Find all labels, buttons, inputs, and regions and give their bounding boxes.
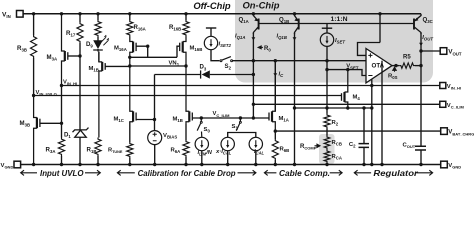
svg-text:M16A: M16A bbox=[114, 46, 127, 53]
node gnd x275.3 bbox=[274, 163, 277, 166]
svg-text:D1: D1 bbox=[64, 132, 71, 140]
wire I_C line bbox=[274, 61, 276, 112]
svg-text:IOUT: IOUT bbox=[422, 35, 433, 42]
capacitor C_OUT bbox=[415, 146, 426, 150]
node rail x186 bbox=[184, 12, 187, 15]
wire V_OUT node to terminal bbox=[421, 50, 440, 52]
wire C_2 column bbox=[363, 108, 365, 144]
node D_3 / V_BIAS / M_1C gate bbox=[153, 118, 156, 121]
svg-text:R0: R0 bbox=[264, 46, 271, 53]
arrow I_C bbox=[273, 73, 277, 76]
wire C_OUT to gnd bbox=[420, 150, 422, 165]
svg-text:VN1: VN1 bbox=[169, 60, 180, 67]
wire V_C_ILIM right line bbox=[253, 103, 439, 105]
transistor M_1B (LED column) bbox=[99, 52, 102, 138]
arrow R_OS pointer bbox=[393, 67, 397, 72]
svg-text:M3A: M3A bbox=[47, 54, 58, 62]
current source I_CAL bbox=[249, 137, 262, 150]
transistor M_16A bbox=[130, 37, 133, 67]
svg-text:On-Chip: On-Chip bbox=[243, 0, 280, 11]
resistor R_2 bbox=[324, 114, 330, 129]
transistor M_1A bbox=[272, 61, 275, 132]
wire rail end to Q_3C emitter bbox=[415, 14, 421, 21]
wire R5 to V_OUT column bbox=[415, 65, 421, 67]
wire rail to R_16B bbox=[185, 14, 187, 20]
wire I_SET2 stem bbox=[210, 28, 212, 36]
svg-text:S1: S1 bbox=[232, 124, 239, 131]
svg-text:M1B: M1B bbox=[89, 66, 99, 73]
node gnd x129.8 bbox=[128, 163, 131, 166]
node gnd x227.7 bbox=[226, 163, 229, 166]
wire Q_3C collector down bbox=[420, 33, 422, 51]
op-amp OTA bbox=[366, 49, 392, 83]
terminal V_C_ILIM bbox=[440, 101, 446, 107]
svg-text:Cable Comp.: Cable Comp. bbox=[279, 169, 330, 178]
node gnd x421 bbox=[419, 163, 422, 166]
svg-text:R3B: R3B bbox=[17, 45, 27, 53]
node OTA output bbox=[394, 64, 397, 67]
node Q1A col / V_C_ILIM line bbox=[252, 103, 255, 106]
resistor R_3A bbox=[58, 138, 64, 157]
current source I_SET bbox=[320, 33, 333, 46]
wire R_3B to V_IN_UVLO node bbox=[33, 58, 35, 96]
svg-text:RCOMP: RCOMP bbox=[300, 143, 317, 151]
wire node line y108 bbox=[295, 107, 372, 109]
terminal V_OUT bbox=[440, 48, 447, 55]
svg-text:ISET: ISET bbox=[335, 38, 345, 45]
wire Q_1A collector down bbox=[252, 33, 254, 118]
node rail x33.6 bbox=[32, 12, 35, 15]
node line108 left end bbox=[293, 106, 296, 109]
node gnd x80 bbox=[78, 163, 81, 166]
svg-text:R6A: R6A bbox=[171, 148, 181, 155]
node OTA tail / V_IN_HI bbox=[370, 84, 373, 87]
section label Cable Comp bbox=[264, 170, 276, 175]
svg-text:VOUT: VOUT bbox=[448, 49, 462, 57]
svg-text:R5: R5 bbox=[403, 55, 411, 61]
label R_0 annotation bbox=[258, 46, 263, 49]
node gnd x327 bbox=[325, 163, 328, 166]
terminal V_BAT_CHRG bbox=[441, 128, 448, 135]
resistor R_17 bbox=[77, 22, 83, 43]
wire V_IN_HI column down bbox=[61, 86, 63, 138]
wire res to D_9 bbox=[97, 37, 99, 41]
wire D_9 to M_1B bbox=[98, 52, 100, 62]
svg-text:Input UVLO: Input UVLO bbox=[40, 169, 84, 178]
section label Input UVLO bbox=[21, 170, 37, 175]
resistor R_6B bbox=[272, 139, 278, 160]
svg-text:M4: M4 bbox=[353, 95, 361, 102]
node R5 / Vout col bbox=[419, 64, 422, 67]
node gnd x33.6 bbox=[32, 163, 35, 166]
node gnd x154.7 bbox=[153, 163, 156, 166]
transistor Q_1B bbox=[295, 14, 299, 34]
node rail x80 bbox=[78, 12, 81, 15]
resistor R_CB bbox=[324, 136, 330, 150]
current source I_SET2 bbox=[204, 36, 217, 49]
resistor R_16A bbox=[127, 20, 133, 37]
svg-text:VIN_HI: VIN_HI bbox=[447, 84, 461, 91]
section label Calibration for Cable Drop bbox=[117, 170, 134, 175]
node rail x129.8 bbox=[128, 12, 131, 15]
node rail Q1A emitter bbox=[252, 12, 255, 15]
svg-text:R6B: R6B bbox=[280, 147, 290, 154]
wire feedback from rail bbox=[379, 14, 381, 43]
svg-text:S0: S0 bbox=[204, 127, 211, 134]
node gnd x294.5 bbox=[293, 163, 296, 166]
transistor M_1B bbox=[186, 66, 189, 124]
source V_BIAS bbox=[148, 131, 162, 145]
node D_3 to Q1A collector bbox=[252, 73, 255, 76]
node gnd x61.5 bbox=[60, 163, 63, 166]
switch S_0 bbox=[200, 118, 202, 121]
wire mirror gate line bbox=[130, 56, 177, 58]
wire Q_1B collector down bbox=[294, 33, 296, 165]
svg-text:IQ1A: IQ1A bbox=[235, 34, 245, 41]
wire S_2 output line bbox=[233, 60, 382, 62]
transistor M_3B bbox=[34, 96, 37, 165]
svg-text:M1A: M1A bbox=[279, 116, 289, 123]
node gnd x371.8 bbox=[370, 163, 373, 166]
LED D_9 emission arrows bbox=[101, 37, 109, 45]
svg-text:ISET2: ISET2 bbox=[219, 42, 232, 49]
resistor R_CA bbox=[324, 150, 330, 164]
wire M_1C to R_TUNE bbox=[129, 122, 131, 142]
arrow I_OUT bbox=[419, 43, 423, 46]
capacitor C_2 bbox=[359, 144, 370, 148]
wire I_CAL to gnd bbox=[255, 151, 257, 165]
wire M_1A to R_6B bbox=[274, 131, 276, 139]
svg-text:VBIAS: VBIAS bbox=[163, 133, 177, 140]
node M_3A gate on x80 bbox=[78, 54, 81, 57]
node V_IN_UVLO bbox=[32, 94, 35, 97]
node M_3B gate on x61.5 bbox=[60, 122, 63, 125]
node S2 wire / Q1A col bbox=[252, 59, 255, 62]
wire V_IN_UVLO line bbox=[34, 95, 342, 97]
svg-text:S2: S2 bbox=[225, 63, 232, 71]
resistor R_3B bbox=[31, 35, 37, 58]
node V_IN_HI bbox=[60, 84, 63, 87]
wire VN_1 segment bbox=[130, 65, 186, 67]
svg-text:R16B: R16B bbox=[169, 24, 181, 32]
svg-text:Off-Chip: Off-Chip bbox=[193, 0, 231, 11]
wire M_3A gate lead bbox=[68, 55, 80, 57]
transistor M_4 bbox=[345, 70, 348, 108]
arrow R_COMP pointer bbox=[315, 144, 321, 147]
node gnd x364 bbox=[362, 163, 365, 166]
node S_1 tap bbox=[239, 116, 242, 119]
resistor above D_9 bbox=[95, 20, 101, 37]
wire M_16B gate riser bbox=[177, 46, 180, 57]
node gnd x98 bbox=[96, 163, 99, 166]
transistor M_3A bbox=[62, 14, 65, 86]
wire V_OUT column down bbox=[420, 51, 422, 146]
node line108 / M_4 bbox=[346, 106, 349, 109]
node rail x380 bbox=[378, 12, 381, 15]
wire V_BIAS to gnd bbox=[154, 145, 156, 165]
wire S_1 branch tee bbox=[228, 133, 256, 138]
wire R_3A to gnd bbox=[61, 156, 63, 165]
node I_SET / S_2 wire bbox=[325, 59, 328, 62]
wire D_3 left segment bbox=[155, 74, 201, 76]
svg-text:M1C: M1C bbox=[114, 117, 124, 124]
svg-text:x·ICAL: x·ICAL bbox=[215, 149, 232, 156]
svg-text:RCA: RCA bbox=[332, 154, 342, 161]
svg-text:D3: D3 bbox=[200, 64, 207, 72]
terminal V_GND left bbox=[14, 161, 21, 168]
wire I_SET stem2 bbox=[326, 28, 328, 33]
node VN_1 bbox=[184, 64, 187, 67]
svg-text:Regulator: Regulator bbox=[373, 169, 418, 178]
node R_2 top / node line bbox=[325, 106, 328, 109]
node rail Q1B emitter bbox=[293, 12, 296, 15]
wire V_C_ILIM gate line bbox=[193, 117, 270, 119]
svg-text:R17: R17 bbox=[66, 30, 76, 38]
arrow I_Q1A bbox=[252, 37, 256, 40]
wire D_3 branch vertical bbox=[154, 75, 156, 131]
R_COMP shaded box bbox=[319, 134, 335, 164]
current source I_SET2 top bar bbox=[206, 27, 216, 29]
wire xI_CAL to gnd bbox=[227, 151, 229, 165]
svg-text:M3B: M3B bbox=[20, 120, 31, 128]
current source x*I_CAL bbox=[221, 137, 234, 150]
switch S_2 bbox=[220, 60, 222, 62]
resistor R_TUNE bbox=[127, 142, 133, 158]
svg-text:ILIM/N: ILIM/N bbox=[198, 150, 213, 157]
transistor Q_3C bbox=[415, 27, 421, 34]
wire R_1B to gnd bbox=[97, 156, 99, 165]
node S2 wire / I_C col bbox=[274, 59, 277, 62]
svg-text:IQ1B: IQ1B bbox=[277, 34, 287, 41]
transistor Q_1A bbox=[253, 14, 258, 34]
wire I_SET stem from bus bbox=[326, 24, 328, 29]
diode D_9 LED bbox=[93, 40, 103, 49]
node Q1A col end bbox=[252, 116, 255, 119]
wire I_SET column down bbox=[326, 46, 328, 113]
resistor R5 bbox=[399, 63, 415, 68]
current source I_SET top bar bbox=[322, 27, 332, 29]
wire R_6A to gnd bbox=[185, 157, 187, 165]
resistor R_6A bbox=[183, 140, 189, 157]
node line108 / OTA tail bbox=[370, 106, 373, 109]
node rail x98 bbox=[96, 12, 99, 15]
transistor M_16B bbox=[183, 37, 186, 67]
node gnd x382 bbox=[380, 163, 383, 166]
wire PNP base bus bbox=[259, 23, 414, 25]
node I_SET / V_SET line bbox=[325, 68, 328, 71]
svg-text:VGND: VGND bbox=[1, 163, 14, 170]
diode D_3 bbox=[202, 70, 210, 78]
diode D_1 zener bbox=[73, 128, 89, 133]
svg-text:D9: D9 bbox=[86, 41, 93, 49]
wire R_2 to R_CB bbox=[326, 129, 328, 136]
svg-text:M16B: M16B bbox=[190, 46, 203, 53]
wire M_3B gate lead bbox=[40, 122, 62, 124]
wire I_LIM/N to gnd bbox=[201, 151, 203, 165]
arrow I_Q1B bbox=[293, 37, 297, 40]
wire R_6B to gnd bbox=[274, 160, 276, 165]
svg-text:VGND: VGND bbox=[448, 163, 461, 170]
node M_16A gate tie bbox=[146, 45, 149, 48]
wire top supply rail bbox=[23, 13, 421, 15]
transistor M_1C bbox=[130, 66, 133, 122]
svg-text:VC_ILIM: VC_ILIM bbox=[447, 103, 465, 110]
svg-text:M1B: M1B bbox=[173, 117, 183, 124]
node gnd x186 bbox=[184, 163, 187, 166]
node VN_1 / mirror column bbox=[128, 64, 131, 67]
terminal V_IN_HI bbox=[440, 83, 446, 89]
svg-text:RTUNE: RTUNE bbox=[108, 148, 123, 155]
wire M_1C gate segment bbox=[136, 119, 154, 121]
node M_16A source tie bbox=[128, 56, 131, 59]
svg-text:C2: C2 bbox=[349, 142, 356, 149]
node V_OUT bbox=[419, 49, 422, 52]
svg-text:1:1:N: 1:1:N bbox=[331, 16, 348, 23]
wire rail to R_16A bbox=[129, 14, 131, 20]
wire gate tie vertical bbox=[147, 46, 149, 57]
svg-text:VIN: VIN bbox=[2, 11, 11, 19]
wire rail to R_17 bbox=[79, 14, 81, 22]
svg-text:RCB: RCB bbox=[332, 140, 342, 147]
wire V_BAT_CHRG line bbox=[275, 130, 440, 132]
wire rail to R_3B bbox=[33, 14, 35, 35]
wire M_16A gate lead bbox=[136, 45, 148, 47]
resistor R_16B bbox=[183, 20, 189, 37]
node S_0 tap bbox=[200, 116, 203, 119]
wire M_1B gate lead to VN_1 bbox=[105, 65, 130, 67]
wire D_3 right segment bbox=[210, 74, 254, 76]
wire R_17 to D_1 bbox=[79, 43, 81, 130]
wire ground rail bbox=[21, 164, 441, 166]
svg-text:Calibration for Cable Drop: Calibration for Cable Drop bbox=[138, 169, 236, 178]
svg-text:R3A: R3A bbox=[46, 147, 56, 155]
node gnd x255.8 bbox=[254, 163, 257, 166]
svg-text:COUT: COUT bbox=[403, 143, 416, 150]
section label Regulator bbox=[354, 170, 371, 175]
terminal V_IN bbox=[17, 11, 24, 18]
wire D_1 to gnd bbox=[79, 137, 81, 164]
wire R_CA to gnd bbox=[326, 163, 328, 165]
wire S2 line drop bbox=[381, 61, 383, 165]
wire OTA + feedback bbox=[358, 43, 381, 56]
wire OTA tail bbox=[371, 79, 373, 165]
on-chip shaded region bbox=[235, 0, 433, 83]
wire M_1B to R_6A bbox=[185, 124, 187, 140]
wire I_SET2 to S_2 bbox=[211, 50, 219, 61]
current source I_LIM/N bbox=[195, 137, 208, 150]
wire R_TUNE to gnd bbox=[129, 158, 131, 165]
wire C_2 to gnd bbox=[363, 147, 365, 164]
svg-text:R2: R2 bbox=[332, 120, 339, 127]
svg-text:VC_ILIM: VC_ILIM bbox=[213, 111, 231, 118]
node line108 / C_2 bbox=[362, 106, 365, 109]
resistor R_1B bbox=[95, 138, 101, 157]
wire V_SET line bbox=[327, 70, 366, 76]
node rail x61.5 bbox=[60, 12, 63, 15]
switch S_1 bbox=[239, 118, 241, 121]
svg-text:VBAT_CHRG: VBAT_CHRG bbox=[448, 129, 474, 137]
node gnd x201.8 bbox=[200, 163, 203, 166]
wire OTA output bbox=[392, 65, 399, 67]
node V_BAT_CHRG start bbox=[274, 129, 277, 132]
wire rail to res98 bbox=[97, 14, 99, 20]
terminal V_GND right bbox=[441, 161, 448, 168]
svg-text:R0S: R0S bbox=[388, 73, 398, 80]
svg-text:R16A: R16A bbox=[134, 24, 146, 32]
wire V_IN_HI line bbox=[62, 85, 440, 87]
node M_4 / V_SET line bbox=[346, 68, 349, 71]
